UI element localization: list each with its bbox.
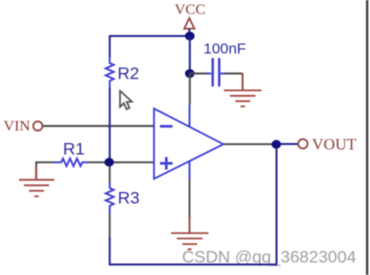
- wire capacitor to ground corner: [225, 73, 243, 75]
- svg-text:R2: R2: [118, 64, 140, 83]
- resistor R2: [106, 57, 114, 89]
- ground (R1): [19, 166, 54, 196]
- wire node B to capacitor: [190, 73, 207, 75]
- wire R1 to node C: [88, 161, 110, 163]
- wire VIN to op-amp inverting input: [43, 125, 154, 127]
- VCC power symbol: [184, 18, 194, 29]
- feedback wire R3 to node D: [110, 144, 277, 264]
- svg-text:VCC: VCC: [175, 2, 206, 18]
- wire node B to op-amp power pin: [189, 74, 191, 105]
- resistor R3: [106, 183, 114, 214]
- mouse cursor: [120, 91, 132, 110]
- wire op-amp output to node D: [223, 143, 272, 145]
- junction node A: [185, 32, 195, 41]
- svg-text:VOUT: VOUT: [312, 137, 357, 154]
- junction node C: [104, 158, 114, 167]
- VOUT terminal: [298, 139, 307, 148]
- wire op-amp ground pin: [189, 180, 191, 218]
- wire node A to node B: [189, 36, 191, 74]
- svg-text:R3: R3: [118, 189, 140, 208]
- capacitor C1 100nF: [207, 58, 225, 87]
- wire R3 bottom lead: [109, 214, 111, 240]
- wire node C to op-amp non-inverting input: [109, 161, 153, 163]
- svg-text:100nF: 100nF: [204, 41, 247, 58]
- wire top bus node A to R2: [109, 35, 190, 37]
- svg-text:CSDN @qq_36823004: CSDN @qq_36823004: [182, 247, 356, 266]
- schematic window border: [366, 0, 368, 275]
- wire node D to VOUT terminal: [281, 143, 299, 145]
- junction node B: [185, 69, 195, 78]
- wire R2 top lead from bus: [109, 36, 111, 58]
- op-amp U1: [154, 105, 223, 180]
- wire R1 to ground corner: [36, 162, 53, 179]
- resistor R1: [53, 159, 87, 167]
- wire node C down to R3: [109, 162, 111, 182]
- wire R2 to node C: [109, 89, 111, 163]
- wire VCC symbol to node A: [188, 29, 190, 36]
- svg-text:VIN: VIN: [4, 118, 31, 134]
- VIN terminal: [33, 121, 42, 130]
- junction node D: [272, 140, 282, 149]
- ground (capacitor): [224, 74, 262, 107]
- ground (op-amp): [171, 218, 208, 250]
- svg-text:R1: R1: [63, 140, 85, 159]
